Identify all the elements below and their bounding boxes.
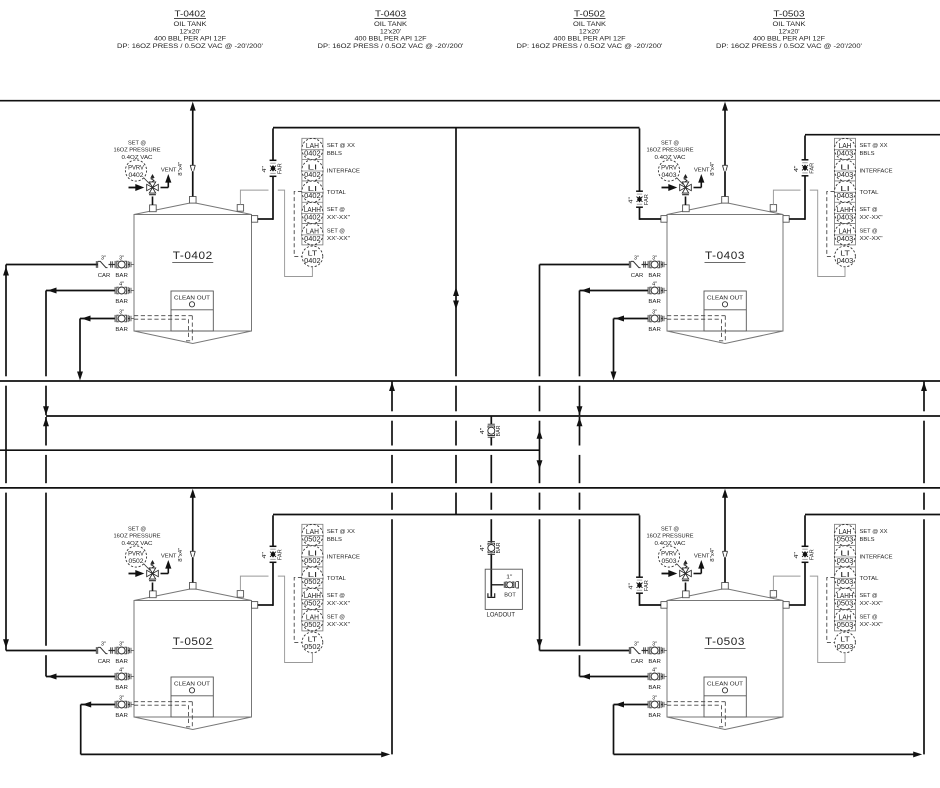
svg-text:XX'-XX": XX'-XX" xyxy=(327,215,350,221)
vent outlet arrow PVRV-0403 xyxy=(698,174,704,188)
svg-text:LAH: LAH xyxy=(839,529,852,536)
PVRV setpoint note 0502 xyxy=(114,526,161,547)
clean out box T-0502 xyxy=(171,677,213,717)
roof nozzle (PVRV) T-0403 xyxy=(683,205,690,212)
ball valve 4" BAR loadout upper xyxy=(480,424,502,437)
loadout open end connection xyxy=(488,593,495,597)
svg-text:FAR: FAR xyxy=(810,163,816,174)
title block T-0403 xyxy=(318,9,464,51)
PVRV setpoint note 0503 xyxy=(647,526,694,547)
svg-text:LAHH: LAHH xyxy=(304,593,321,600)
vent header (top, to flare) xyxy=(0,100,940,102)
svg-text:4": 4" xyxy=(794,165,800,172)
svg-text:4": 4" xyxy=(794,552,800,559)
ball valve 3" BAR T-0502 row 1 xyxy=(115,642,128,665)
instrument stack frame 0403 xyxy=(835,138,856,245)
svg-text:PVRV: PVRV xyxy=(128,550,144,557)
svg-text:BBLS: BBLS xyxy=(327,537,342,543)
svg-text:VENT: VENT xyxy=(161,167,177,173)
svg-text:0503: 0503 xyxy=(837,537,854,544)
svg-text:PVRV: PVRV xyxy=(128,164,144,171)
instrument LI-0403 xyxy=(834,181,855,202)
vent outlet arrow PVRV-0503 xyxy=(698,560,704,574)
svg-text:3": 3" xyxy=(101,256,106,262)
svg-text:3": 3" xyxy=(119,310,124,316)
instrument LI-0502 xyxy=(302,567,323,588)
svg-text:0503: 0503 xyxy=(837,601,854,608)
instrument LI-0503 xyxy=(834,546,855,567)
oil line T-0403 to BAR header x=579.5 upper xyxy=(577,291,583,416)
svg-text:BAR: BAR xyxy=(496,425,502,436)
instrument tag bubble PVRV-0502 xyxy=(125,546,146,567)
ball valve 3" BAR T-0402 row 3 xyxy=(115,310,128,333)
svg-text:OIL TANK: OIL TANK xyxy=(573,22,606,28)
flame arrestor line T-0403 left at x=639.5 xyxy=(640,128,662,219)
svg-text:12'x20': 12'x20' xyxy=(180,29,201,35)
svg-text:BBLS: BBLS xyxy=(860,537,875,543)
svg-text:0503: 0503 xyxy=(837,558,854,565)
instrument LI-0503 xyxy=(834,567,855,588)
svg-text:400 BBL PER API 12F: 400 BBL PER API 12F xyxy=(154,37,226,43)
svg-text:PVRV: PVRV xyxy=(661,550,677,557)
svg-text:VENT: VENT xyxy=(161,553,177,559)
instrument LAHH-0503 xyxy=(834,588,855,609)
top side nozzle T-0402 (right) xyxy=(252,216,258,223)
inlet flow arrow to PVRV-0502 xyxy=(129,570,145,577)
drain line T-0402 x=80 xyxy=(77,319,83,381)
PVRV setpoint note 0402 xyxy=(114,140,161,161)
pipe stub T-0502 row 2 xyxy=(128,676,130,678)
instrument LAH-0503 xyxy=(834,610,855,631)
roof nozzle (vent) T-0402 xyxy=(189,197,196,204)
svg-text:XX'-XX": XX'-XX" xyxy=(327,622,350,628)
reducer 8"x4" on vent riser T-0403 xyxy=(723,165,728,170)
wire loadout sample branch xyxy=(491,584,503,586)
flame arrestor FAR T-0503 left xyxy=(636,577,643,593)
side nozzle row 2 T-0403 xyxy=(663,288,667,294)
svg-text:3": 3" xyxy=(652,696,657,702)
svg-text:4": 4" xyxy=(119,668,124,674)
ball valve 1" BOT loadout sample xyxy=(504,575,518,599)
pipe stub T-0402 row 1 xyxy=(128,264,130,266)
tank label T-0402 xyxy=(172,250,213,263)
svg-text:BAR: BAR xyxy=(115,327,128,333)
svg-text:LI: LI xyxy=(840,186,850,193)
top side nozzle T-0403 (left) xyxy=(661,216,667,223)
ball valve 3" BAR T-0403 row 3 xyxy=(648,310,661,333)
vent outlet arrow PVRV-0502 xyxy=(165,560,171,574)
check valve 3" CAR T-0402 inlet xyxy=(96,256,110,279)
svg-text:LAH: LAH xyxy=(839,143,852,150)
svg-text:4": 4" xyxy=(652,282,657,288)
ball valve 4" BAR T-0402 row 2 xyxy=(115,282,128,305)
top side nozzle T-0403 (right) xyxy=(783,216,789,223)
flange pair T-0402 row1 xyxy=(111,261,113,267)
level transmitter LT-0403 xyxy=(835,246,856,267)
svg-text:FAR: FAR xyxy=(810,549,816,560)
svg-text:0503: 0503 xyxy=(837,579,854,586)
svg-text:LAH: LAH xyxy=(306,228,319,235)
svg-text:LAH: LAH xyxy=(839,228,852,235)
instrument LAH-0403 xyxy=(834,138,855,159)
svg-text:INTERFACE: INTERFACE xyxy=(327,555,360,561)
svg-text:INTERFACE: INTERFACE xyxy=(860,555,893,561)
svg-text:LI: LI xyxy=(308,551,318,558)
svg-text:8"x4": 8"x4" xyxy=(710,162,716,176)
pressure/vacuum relief valve PVRV-0402 xyxy=(143,175,168,205)
svg-text:T-0403: T-0403 xyxy=(375,9,406,19)
svg-text:3": 3" xyxy=(634,642,639,648)
FAR labels T-0503 left xyxy=(629,580,651,591)
svg-text:0503: 0503 xyxy=(837,622,854,629)
flame arrestor line T-0503 left at x=639.5 xyxy=(640,515,662,606)
loadout station box xyxy=(485,569,522,609)
svg-text:0402: 0402 xyxy=(304,236,321,243)
svg-text:0502: 0502 xyxy=(304,579,321,586)
top side nozzle T-0502 (right) xyxy=(252,602,258,609)
svg-text:VENT: VENT xyxy=(694,167,710,173)
svg-text:0502: 0502 xyxy=(304,558,321,565)
FAR labels T-0502 xyxy=(262,549,284,560)
instrument LAHH-0403 xyxy=(834,202,855,223)
svg-text:4": 4" xyxy=(262,552,268,559)
svg-text:SET @: SET @ xyxy=(128,526,146,532)
svg-text:SET @: SET @ xyxy=(327,593,345,599)
ball valve 4" loadout at station xyxy=(480,542,502,555)
internal drain dip pipe T-0403 (dashed) xyxy=(667,316,726,341)
svg-text:12'x20': 12'x20' xyxy=(779,29,800,35)
wire drain T-0502 xyxy=(81,702,115,708)
pressure/vacuum relief valve PVRV-0503 xyxy=(676,561,701,591)
side nozzle row 2 T-0502 xyxy=(130,674,134,680)
svg-text:0403: 0403 xyxy=(837,172,854,179)
svg-text:SET @: SET @ xyxy=(327,228,345,234)
wire BAR outlet T-0403 xyxy=(580,288,649,294)
vent riser 8"x4" T-0402 xyxy=(190,102,196,197)
svg-text:0402: 0402 xyxy=(304,193,321,200)
pipe stub T-0403 row 1 xyxy=(661,264,663,266)
ball valve 3" BAR T-0403 row 1 xyxy=(648,256,661,279)
svg-text:SET @: SET @ xyxy=(860,593,878,599)
wire drain T-0402 xyxy=(80,316,115,322)
svg-text:0502: 0502 xyxy=(304,537,321,544)
svg-text:4": 4" xyxy=(652,668,657,674)
svg-text:LAHH: LAHH xyxy=(304,207,321,214)
vapor equalization line top tanks xyxy=(273,127,640,129)
svg-text:XX'-XX": XX'-XX" xyxy=(327,601,350,607)
pipe stub T-0503 row 1 xyxy=(661,650,663,652)
feed riser right tanks (CAR) x=539.5 xyxy=(537,265,543,651)
svg-text:8"x4": 8"x4" xyxy=(178,548,184,562)
pipe stub T-0502 row 1 xyxy=(128,650,130,652)
svg-text:3": 3" xyxy=(652,310,657,316)
svg-text:XX'-XX": XX'-XX" xyxy=(860,601,883,607)
instrument LAH-0503 xyxy=(834,524,855,545)
drain line T-0502 to riser xyxy=(81,705,391,758)
wire BAR outlet T-0402 xyxy=(46,288,115,294)
svg-text:SET @: SET @ xyxy=(860,207,878,213)
svg-text:SET @ XX: SET @ XX xyxy=(860,529,888,535)
feed riser left tanks (CAR) x=6 xyxy=(3,265,9,651)
svg-text:SET @: SET @ xyxy=(661,140,679,146)
pressure/vacuum relief valve PVRV-0403 xyxy=(676,175,701,205)
svg-text:SET @ XX: SET @ XX xyxy=(327,529,355,535)
svg-text:TOTAL: TOTAL xyxy=(327,190,346,196)
pressure/vacuum relief valve PVRV-0502 xyxy=(143,561,168,591)
wire CAR feed to T-0403 xyxy=(540,264,630,266)
instrument tag bubble PVRV-0503 xyxy=(658,546,679,567)
svg-text:4": 4" xyxy=(480,545,486,552)
svg-text:8"x4": 8"x4" xyxy=(178,162,184,176)
svg-text:3": 3" xyxy=(652,256,657,262)
svg-text:LAH: LAH xyxy=(839,614,852,621)
svg-text:LOADOUT: LOADOUT xyxy=(487,612,516,619)
tank T-0403 shell xyxy=(667,203,783,344)
roof nozzle (level) T-0402 xyxy=(237,205,243,212)
reducer 8"x4" on vent riser T-0402 xyxy=(190,165,195,170)
inlet flow arrow to PVRV-0403 xyxy=(662,184,678,191)
svg-text:SET @ XX: SET @ XX xyxy=(327,143,355,149)
pipe stub T-0503 row 2 xyxy=(661,676,663,678)
vapor line T-0403 to right xyxy=(805,134,940,136)
instrument LAH-0502 xyxy=(302,610,323,631)
svg-text:BAR: BAR xyxy=(115,659,128,665)
flame arrestor FAR T-0402 xyxy=(270,160,277,176)
side nozzle row 1 T-0502 xyxy=(130,648,134,654)
svg-text:OIL TANK: OIL TANK xyxy=(174,22,207,28)
svg-text:0503: 0503 xyxy=(837,644,854,651)
top side nozzle T-0503 (right) xyxy=(783,602,789,609)
svg-text:0502: 0502 xyxy=(129,558,144,565)
title block T-0503 xyxy=(716,9,862,51)
svg-text:DP: 16OZ PRESS / 0.5OZ VAC @ -: DP: 16OZ PRESS / 0.5OZ VAC @ -20'/200' xyxy=(716,44,862,50)
clean out box T-0503 xyxy=(704,677,746,717)
svg-text:4": 4" xyxy=(119,282,124,288)
svg-text:FAR: FAR xyxy=(278,549,284,560)
svg-text:0.4OZ VAC: 0.4OZ VAC xyxy=(655,155,686,161)
level transmitter LT-0502 xyxy=(302,632,323,653)
ball valve 4" BAR T-0403 row 2 xyxy=(648,282,661,305)
svg-text:4": 4" xyxy=(262,166,268,173)
svg-text:0403: 0403 xyxy=(837,215,854,222)
FAR labels T-0402 xyxy=(262,163,284,174)
tank T-0503 shell xyxy=(667,589,783,730)
svg-text:SET @ XX: SET @ XX xyxy=(860,143,888,149)
stack labels 0403 xyxy=(860,143,893,242)
svg-text:3": 3" xyxy=(119,642,124,648)
svg-text:BAR: BAR xyxy=(648,713,661,719)
svg-text:LI: LI xyxy=(308,165,318,172)
svg-text:SET @: SET @ xyxy=(128,140,146,146)
side nozzle row 1 T-0403 xyxy=(663,262,667,268)
svg-text:LAHH: LAHH xyxy=(837,593,854,600)
svg-text:CLEAN OUT: CLEAN OUT xyxy=(707,682,743,688)
svg-text:0402: 0402 xyxy=(129,172,144,179)
svg-text:0.4OZ VAC: 0.4OZ VAC xyxy=(655,541,686,547)
PVRV setpoint note 0403 xyxy=(647,140,694,161)
vent riser 8"x4" T-0502 xyxy=(190,489,196,583)
svg-text:BAR: BAR xyxy=(115,299,128,305)
roof nozzle (level) T-0502 xyxy=(237,591,243,598)
vent outlet arrow PVRV-0402 xyxy=(165,174,171,188)
svg-text:FAR: FAR xyxy=(644,580,650,591)
svg-text:CAR: CAR xyxy=(631,273,644,279)
svg-text:CLEAN OUT: CLEAN OUT xyxy=(174,682,210,688)
svg-text:FAR: FAR xyxy=(644,194,650,205)
svg-text:DP: 16OZ PRESS / 0.5OZ VAC @ -: DP: 16OZ PRESS / 0.5OZ VAC @ -20'/200' xyxy=(117,44,263,50)
roof nozzle (vent) T-0502 xyxy=(189,583,196,590)
flange pair T-0503 row1 xyxy=(644,647,646,653)
oil line T-0402 to BAR header x=46 upper xyxy=(43,291,49,416)
roof nozzle (PVRV) T-0502 xyxy=(150,591,157,598)
flame arrestor line T-0503 right at x=805 xyxy=(789,515,805,606)
svg-text:LI: LI xyxy=(840,572,850,579)
svg-text:T-0503: T-0503 xyxy=(705,636,745,648)
signal link LI to LT 0403 (dashed) xyxy=(827,192,835,257)
level connection piping T-0403 (thin) xyxy=(773,190,845,276)
level connection piping T-0402 (thin) xyxy=(240,190,312,276)
wire BAR outlet T-0502 xyxy=(46,674,115,680)
svg-text:0402: 0402 xyxy=(304,215,321,222)
drain line T-0403 x=613.5 xyxy=(611,319,617,381)
instrument LAH-0403 xyxy=(834,224,855,245)
svg-text:0502: 0502 xyxy=(304,601,321,608)
svg-text:LAH: LAH xyxy=(306,614,319,621)
side nozzle row 3 T-0403 xyxy=(663,316,667,322)
instrument LI-0402 xyxy=(302,181,323,202)
FAR labels T-0503 right xyxy=(794,549,816,560)
svg-text:400 BBL PER API 12F: 400 BBL PER API 12F xyxy=(753,37,825,43)
svg-text:12'x20': 12'x20' xyxy=(579,29,600,35)
reducer 8"x4" on vent riser T-0502 xyxy=(190,551,195,556)
svg-text:16OZ PRESSURE: 16OZ PRESSURE xyxy=(647,534,694,540)
svg-text:0402: 0402 xyxy=(304,151,321,158)
wire CAR feed to T-0402 xyxy=(6,264,98,266)
title block T-0502 xyxy=(517,9,663,51)
svg-text:LI: LI xyxy=(840,551,850,558)
stack labels 0502 xyxy=(327,529,360,628)
svg-text:T-0502: T-0502 xyxy=(574,9,605,19)
level transmitter LT-0402 xyxy=(302,246,323,267)
level connection piping T-0502 (thin) xyxy=(240,576,312,662)
flame arrestor line T-0502 at x=273 xyxy=(258,515,273,606)
instrument LAH-0502 xyxy=(302,524,323,545)
drain riser T-0502 x=392 xyxy=(389,382,395,755)
relief/drain header H1 xyxy=(0,380,940,382)
svg-text:INTERFACE: INTERFACE xyxy=(860,169,893,175)
svg-text:INTERFACE: INTERFACE xyxy=(327,169,360,175)
oil line T-0503 to BAR header x=579.5 lower xyxy=(577,417,583,677)
flame arrestor line T-0403 right at x=805 xyxy=(789,136,805,220)
svg-text:0503: 0503 xyxy=(662,558,677,565)
check valve 3" CAR T-0503 inlet xyxy=(629,642,643,665)
pipe stub T-0402 row 3 xyxy=(128,318,130,320)
svg-text:16OZ PRESSURE: 16OZ PRESSURE xyxy=(647,148,694,154)
stack labels 0402 xyxy=(327,143,360,242)
svg-text:3": 3" xyxy=(101,642,106,648)
svg-text:CAR: CAR xyxy=(631,659,644,665)
internal drain dip pipe T-0402 (dashed) xyxy=(134,316,193,341)
vent riser 8"x4" T-0403 xyxy=(722,102,728,197)
svg-text:BAR: BAR xyxy=(115,713,128,719)
svg-text:XX'-XX": XX'-XX" xyxy=(327,236,350,242)
wire drain T-0403 xyxy=(614,316,649,322)
flange pair T-0502 row1 xyxy=(111,647,113,653)
svg-text:0402: 0402 xyxy=(304,258,321,265)
svg-text:BAR: BAR xyxy=(115,273,128,279)
svg-text:CAR: CAR xyxy=(98,659,111,665)
roof nozzle (vent) T-0503 xyxy=(722,583,729,590)
svg-text:1": 1" xyxy=(506,575,512,581)
svg-text:4": 4" xyxy=(629,583,635,590)
wire CAR feed to T-0503 xyxy=(540,650,630,652)
svg-text:3": 3" xyxy=(652,642,657,648)
drain riser T-0503 x=924 xyxy=(921,382,927,755)
svg-text:0.4OZ VAC: 0.4OZ VAC xyxy=(122,541,153,547)
svg-text:LT: LT xyxy=(840,251,850,258)
clean out box T-0403 xyxy=(704,291,746,331)
svg-text:3": 3" xyxy=(634,256,639,262)
svg-text:0502: 0502 xyxy=(304,622,321,629)
svg-text:0403: 0403 xyxy=(662,172,677,179)
svg-text:OIL TANK: OIL TANK xyxy=(374,22,407,28)
svg-text:TOTAL: TOTAL xyxy=(860,576,879,582)
check valve 3" CAR T-0403 inlet xyxy=(629,256,643,279)
inlet flow arrow to PVRV-0402 xyxy=(129,184,145,191)
ball valve 4" BAR T-0502 row 2 xyxy=(115,668,128,691)
side nozzle row 1 T-0503 xyxy=(663,648,667,654)
svg-text:T-0402: T-0402 xyxy=(173,250,213,262)
svg-text:0402: 0402 xyxy=(304,172,321,179)
instrument stack frame 0402 xyxy=(302,138,323,245)
check valve 3" CAR T-0502 inlet xyxy=(96,642,110,665)
vapor equalization line bottom tanks xyxy=(273,514,640,516)
side nozzle row 3 T-0503 xyxy=(663,702,667,708)
signal link LI to LT 0402 (dashed) xyxy=(294,192,302,257)
pipe stub T-0403 row 3 xyxy=(661,318,663,320)
svg-text:TOTAL: TOTAL xyxy=(860,190,879,196)
svg-text:OIL TANK: OIL TANK xyxy=(773,22,806,28)
svg-text:3": 3" xyxy=(119,696,124,702)
svg-text:0403: 0403 xyxy=(837,236,854,243)
svg-text:400 BBL PER API 12F: 400 BBL PER API 12F xyxy=(355,37,427,43)
oil header BAR H2 xyxy=(46,415,940,417)
side nozzle row 2 T-0503 xyxy=(663,674,667,680)
svg-text:16OZ PRESSURE: 16OZ PRESSURE xyxy=(114,148,161,154)
svg-text:SET @: SET @ xyxy=(661,526,679,532)
roof nozzle (level) T-0403 xyxy=(770,205,776,212)
svg-text:SET @: SET @ xyxy=(860,614,878,620)
side nozzle row 1 T-0402 xyxy=(130,262,134,268)
side nozzle row 3 T-0402 xyxy=(130,316,134,322)
roof nozzle (level) T-0503 xyxy=(770,591,776,598)
instrument stack frame 0503 xyxy=(835,524,856,631)
ball valve 3" BAR T-0503 row 3 xyxy=(648,696,661,719)
svg-text:CLEAN OUT: CLEAN OUT xyxy=(174,296,210,302)
svg-text:XX'-XX": XX'-XX" xyxy=(860,622,883,628)
svg-text:BAR: BAR xyxy=(115,685,128,691)
signal link LI to LT 0503 (dashed) xyxy=(827,578,835,643)
roof nozzle (PVRV) T-0402 xyxy=(150,205,157,212)
svg-text:BAR: BAR xyxy=(648,299,661,305)
svg-text:BAR: BAR xyxy=(648,659,661,665)
flame arrestor FAR T-0503 right xyxy=(802,546,809,562)
svg-text:LI: LI xyxy=(840,165,850,172)
feed header CAR H3 xyxy=(0,449,540,451)
svg-text:CLEAN OUT: CLEAN OUT xyxy=(707,296,743,302)
instrument LI-0502 xyxy=(302,546,323,567)
stack labels 0503 xyxy=(860,529,893,628)
